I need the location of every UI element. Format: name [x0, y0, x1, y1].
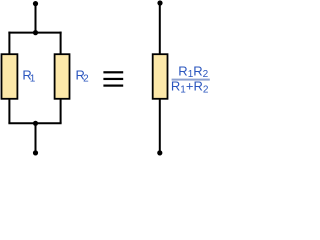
svg-text:R: R: [194, 78, 203, 93]
svg-text:2: 2: [203, 85, 209, 96]
svg-text:2: 2: [83, 74, 89, 85]
svg-text:1: 1: [30, 74, 36, 85]
svg-text:R: R: [178, 63, 187, 78]
svg-text:+: +: [186, 78, 194, 93]
svg-text:R: R: [171, 78, 180, 93]
svg-text:R: R: [193, 63, 202, 78]
svg-text:2: 2: [203, 69, 209, 80]
